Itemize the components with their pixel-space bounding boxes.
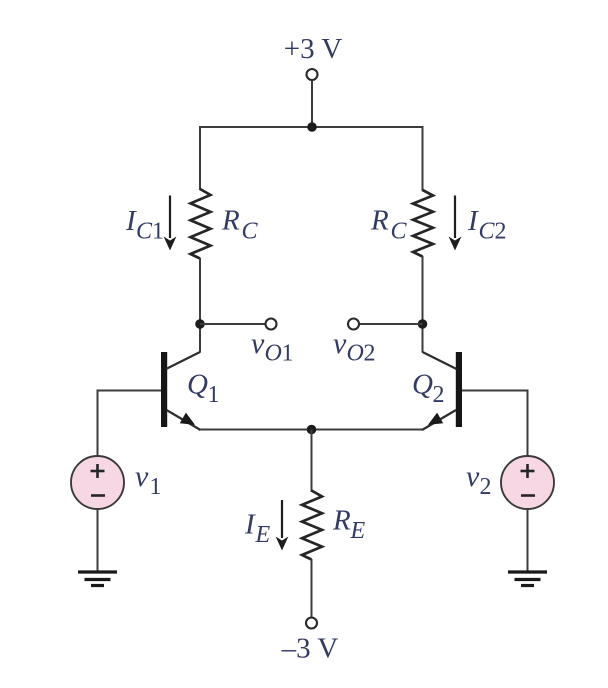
wire: junction to RE [311,430,313,493]
svg-text:v: v [466,460,480,493]
wire: vO1 stub [200,323,265,325]
svg-text:+3 V: +3 V [284,33,343,65]
svg-text:2: 2 [495,219,507,245]
current arrow IC1 [164,196,177,251]
svg-text:R: R [370,205,389,237]
svg-text:1: 1 [208,382,220,408]
wire: RE to -3V terminal [311,559,313,617]
label v2 [466,460,492,500]
label Q2 [412,369,445,409]
wire: left RC to Q1 collector [199,258,201,353]
resistor RE [302,491,322,560]
ground (left) [78,572,117,586]
svg-text:C: C [391,219,408,245]
svg-text:v: v [333,327,347,360]
ground (right) [508,572,547,586]
svg-text:R: R [221,205,240,237]
label IC1 [125,205,164,245]
wire: Q1 base lead [98,391,162,457]
wire: left branch top [199,126,201,190]
node: top rail junction [307,122,317,132]
terminal vO1 [266,319,277,330]
svg-text:C: C [479,219,496,245]
terminal vO2 [348,319,359,330]
wire: emitter bus (Q1 to Q2) [200,429,423,431]
label Q1 [187,369,220,409]
transistor Q1 [161,352,201,430]
wire: vO2 stub [359,323,423,325]
svg-text:C: C [242,219,259,245]
wire: v1 to ground [97,509,99,572]
svg-text:–3 V: –3 V [281,633,339,665]
label vO1 [251,327,294,367]
wire: v2 to ground [527,509,529,572]
wire: right branch top [422,126,424,191]
current arrow IC2 [449,196,462,251]
node: emitter junction [307,425,317,435]
source v2 [501,456,554,509]
svg-text:O: O [347,341,364,367]
resistor RC (left) [191,189,211,259]
svg-text:v: v [135,460,149,493]
terminal +3V [307,69,318,80]
label RC (left) [221,205,259,245]
node: Q1 collector tap [195,319,205,329]
resistor RC (right) [413,190,433,257]
svg-text:O: O [265,341,282,367]
svg-text:1: 1 [282,341,294,367]
wire: right RC to Q2 collector [422,256,424,353]
svg-text:2: 2 [480,474,492,500]
label RE [332,505,366,545]
svg-text:I: I [244,509,256,541]
svg-text:R: R [332,505,351,537]
svg-text:Q: Q [412,369,433,401]
label IE [244,509,271,549]
svg-text:2: 2 [364,341,376,367]
transistor Q2 [422,352,462,430]
svg-text:C: C [136,219,153,245]
node: Q2 collector tap [418,319,428,329]
svg-text:v: v [251,327,265,360]
svg-text:E: E [350,518,366,544]
svg-text:1: 1 [150,474,162,500]
wire: Q2 base lead [462,391,528,457]
svg-text:E: E [255,522,271,548]
label v1 [135,460,162,500]
label vO2 [333,327,376,367]
svg-text:1: 1 [152,219,164,245]
label IC2 [467,205,507,245]
wire: top rail [199,126,424,128]
svg-text:Q: Q [187,369,208,401]
terminal -3V [306,618,317,629]
current arrow IE [276,500,289,551]
svg-text:I: I [467,205,479,237]
label RC (right) [370,205,408,245]
svg-text:2: 2 [433,382,445,408]
source v1 [71,456,124,509]
wire: +3V terminal to top rail [311,81,313,128]
